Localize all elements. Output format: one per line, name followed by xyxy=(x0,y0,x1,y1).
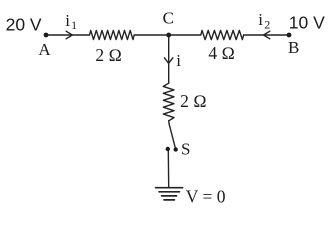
node B xyxy=(287,33,292,38)
switch contact left xyxy=(166,147,170,151)
svg-text:C: C xyxy=(163,8,174,27)
current arrow i1 xyxy=(66,31,72,39)
wire R2 to B xyxy=(244,34,289,36)
resistor R1 2 ohm horizontal xyxy=(90,30,135,39)
svg-text:10 V: 10 V xyxy=(289,13,325,33)
switch S blade xyxy=(169,124,175,148)
svg-text:S: S xyxy=(181,140,190,159)
wire R1 to node C xyxy=(134,34,169,36)
current arrow i xyxy=(164,58,173,64)
resistor R3 2 ohm vertical xyxy=(163,83,174,121)
wire R3 to switch blade xyxy=(168,121,170,124)
svg-text:A: A xyxy=(38,40,51,59)
svg-text:i1: i1 xyxy=(65,11,77,32)
node A xyxy=(44,33,49,38)
svg-text:i2: i2 xyxy=(258,10,270,32)
ground symbol V=0 xyxy=(156,188,183,200)
node C junction xyxy=(166,33,171,38)
svg-text:2 Ω: 2 Ω xyxy=(95,45,122,65)
svg-text:4 Ω: 4 Ω xyxy=(208,43,235,63)
current arrow i2 xyxy=(264,31,270,39)
svg-text:2 Ω: 2 Ω xyxy=(180,91,207,111)
switch contact right xyxy=(174,147,178,151)
wire node C down xyxy=(168,35,170,83)
svg-text:B: B xyxy=(288,38,299,57)
svg-text:V = 0: V = 0 xyxy=(186,187,226,207)
wire switch to ground xyxy=(167,151,169,187)
svg-text:20 V: 20 V xyxy=(6,15,42,35)
resistor R2 4 ohm horizontal xyxy=(201,30,244,39)
wire node C to R2 xyxy=(169,34,201,36)
wire A to R1 xyxy=(46,34,90,36)
svg-text:i: i xyxy=(176,51,181,70)
